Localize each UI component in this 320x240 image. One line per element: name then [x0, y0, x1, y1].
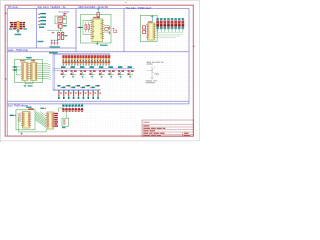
wires left of U1	[83, 21, 91, 35]
led row red caps	[62, 55, 110, 58]
hierarchical label row1 box2	[38, 13, 46, 15]
page background	[0, 0, 200, 142]
driver U2 body	[148, 23, 155, 40]
wire above U5	[59, 108, 63, 112]
net labels under box3	[100, 45, 108, 46]
opto unit 3	[164, 18, 167, 32]
net label above shift registers	[26, 57, 31, 59]
transistor Q7	[117, 70, 124, 78]
resistor R5 box4	[143, 30, 146, 33]
driver enclosure bottom	[16, 110, 35, 130]
U5 pin names left	[47, 113, 49, 128]
led row teal mid	[63, 60, 110, 61]
led row orange dots	[63, 63, 110, 64]
title block rows	[142, 124, 193, 136]
wires into slabs top	[17, 59, 34, 75]
pins between slabs	[28, 64, 31, 79]
horizontal bus mid	[53, 68, 135, 70]
section divider: box1/box2	[36, 8, 38, 48]
capacitor C3	[56, 40, 58, 46]
power flag box3	[97, 8, 100, 13]
diode D1 above relay	[63, 14, 67, 17]
shift register U5 body	[47, 112, 54, 129]
shift register U3a body	[22, 62, 28, 80]
net label under switches	[38, 41, 44, 42]
ground symbol J1	[16, 30, 19, 33]
note circuit text	[147, 62, 164, 65]
U5 right pin labels	[54, 113, 58, 127]
U4 right pins	[30, 113, 31, 126]
capacitor C2	[54, 40, 56, 46]
frame ticks	[5, 5, 194, 137]
hier label bottom left	[10, 115, 16, 117]
hier label left B	[12, 69, 16, 71]
svg-text:Microcontroller - Atmel AV: Microcontroller - Atmel AV	[79, 5, 109, 9]
U3b right pins	[37, 64, 38, 79]
switch S2	[61, 31, 63, 39]
driver U2 left pins	[146, 25, 147, 38]
resistor row red marks	[61, 85, 97, 88]
relay K1 body	[58, 17, 66, 22]
gnd label bottom	[62, 127, 65, 128]
svg-text:PC conn.: PC conn.	[8, 5, 19, 9]
shift register U3b body	[31, 62, 37, 80]
wire stubs under J1	[14, 28, 22, 31]
hierarchical label row5 box2	[39, 27, 44, 28]
section divider: bottom of box3 box4 / top of middle	[7, 51, 189, 53]
opto unit 6	[174, 18, 177, 32]
svg-text:Sun led flash: Sun led flash	[59, 11, 70, 13]
note circuit bottom text	[146, 80, 157, 83]
svg-text:Leds - TM30 strip: Leds - TM30 strip	[8, 48, 29, 52]
opto unit 7	[178, 18, 181, 32]
U4 pin names left	[23, 113, 25, 127]
resistor row labels	[57, 85, 99, 88]
opto unit 4	[167, 18, 170, 32]
mcu U1 left pins	[90, 21, 92, 39]
driver enclosure box4	[140, 15, 157, 41]
mcu U1 right pins	[103, 21, 105, 39]
vertical bus	[53, 54, 54, 91]
resistor R3 left	[88, 25, 90, 30]
U4 left pins	[21, 113, 22, 126]
connector J1 right pin labels	[20, 22, 25, 28]
connector J1 left pin labels	[10, 22, 17, 28]
U4 left outside labels	[18, 113, 21, 122]
net label near bus top	[49, 52, 58, 54]
U3b pin names	[31, 63, 33, 79]
hier stub left	[52, 32, 55, 33]
driver U2 ref text	[148, 21, 152, 22]
bus ribbon fill	[35, 112, 46, 128]
ground U3	[24, 85, 27, 88]
power flag box4	[151, 15, 154, 22]
U3a left pins	[21, 64, 22, 79]
hierarchical label row3 box2	[38, 20, 46, 22]
svg-text:Sun conn. / Switchs - Sc: Sun conn. / Switchs - Sc	[38, 5, 67, 9]
mcu U1 pin name smudge right	[101, 20, 103, 39]
resistor pack teal row	[62, 105, 83, 107]
opto unit 1	[156, 18, 159, 32]
transistor row labels	[61, 66, 132, 68]
shift register enclosure middle	[15, 59, 43, 82]
transistor Q4	[89, 70, 96, 78]
opto unit 2	[160, 18, 163, 32]
red ref text above slabs	[20, 60, 24, 61]
wires opto row to U2	[157, 32, 183, 37]
title block outline	[142, 120, 193, 136]
net label sr	[28, 85, 33, 86]
ground U1	[96, 42, 99, 46]
bus ribbon diagonals	[35, 112, 46, 128]
resistor pack red row	[62, 108, 83, 110]
section divider: box2/box3	[75, 8, 77, 51]
U4 pin names right	[28, 113, 30, 127]
transistor Q3	[79, 70, 86, 78]
U5 left pins	[46, 114, 47, 127]
hier label left A	[12, 66, 16, 68]
hier label left box3	[77, 27, 82, 29]
svg-text:Top side - TM30 interf: Top side - TM30 interf	[126, 6, 151, 10]
opto unit 8	[182, 18, 185, 32]
connector enclosure bottom	[62, 118, 69, 126]
hierarchical label row4 box2	[38, 24, 46, 26]
resistor R4 box4	[143, 26, 146, 29]
mcu U1 body	[92, 19, 103, 42]
section divider: top of bottom band	[7, 103, 189, 105]
svg-text:Sun key Patch fix: Sun key Patch fix	[48, 29, 62, 32]
red marks under J1	[13, 28, 16, 30]
resistor pack red text row	[62, 111, 83, 112]
crystal Y1	[104, 26, 109, 33]
ground bottom	[20, 133, 23, 135]
capacitor C4	[109, 26, 111, 30]
switch S1	[58, 31, 60, 39]
net label above ribbon	[41, 108, 44, 109]
component above U4	[28, 108, 33, 110]
resistor row bodies	[58, 90, 101, 99]
connector pins bottom	[63, 119, 65, 125]
mcu U1 ref text	[93, 17, 100, 18]
section divider: right edge	[188, 8, 190, 104]
wire below slabs	[25, 81, 33, 84]
horizontal bus low	[53, 89, 101, 90]
section divider: top edge	[7, 7, 189, 9]
bus entries U3	[48, 64, 51, 80]
net label under caps	[50, 46, 61, 47]
led row orange	[63, 58, 111, 60]
resistor below relay	[57, 24, 66, 31]
section divider: bottom of middle band	[7, 100, 189, 102]
node labels TX RX	[9, 28, 27, 29]
wire resistor pack down	[66, 111, 68, 118]
U5 right pins	[53, 114, 56, 127]
frame column number	[125, 2, 127, 3]
transistor Q2	[70, 70, 77, 78]
mcu enclosure box3	[81, 15, 112, 44]
transistor Q5	[98, 70, 105, 78]
net label above U4	[26, 107, 32, 108]
U5 pin names right	[52, 113, 54, 128]
capacitor C5	[109, 31, 111, 35]
transistor Q8	[127, 70, 134, 78]
relay K1 enclosure	[55, 16, 66, 24]
section divider: box3/box4	[123, 8, 125, 51]
title block texts	[143, 122, 190, 136]
transistor Q1	[60, 70, 67, 78]
horizontal bus top	[53, 54, 110, 55]
led row red lower	[62, 61, 110, 63]
wires bottom left	[18, 118, 46, 132]
sheet frame	[5, 5, 193, 136]
led row	[62, 55, 110, 65]
led row teal feet	[63, 65, 110, 66]
opto unit 5	[171, 18, 174, 32]
connector J1 body	[17, 21, 19, 29]
resistor R1 top	[97, 13, 100, 20]
transistor Q6	[108, 70, 115, 78]
grid dots	[2, 2, 198, 140]
section divider: bottom of box1 box2	[7, 47, 76, 49]
shift register U4 body	[22, 112, 30, 129]
svg-text:Col / TM30 driver: Col / TM30 driver	[8, 104, 28, 108]
section divider: left edge	[6, 8, 8, 135]
mcu U1 inner teal marks	[93, 21, 103, 37]
note circuit transistor	[147, 66, 159, 79]
page edge shadow	[0, 0, 200, 142]
mcu U1 pin name smudge left	[92, 20, 94, 39]
hier label right box3	[113, 28, 117, 33]
ground label J1	[15, 34, 22, 36]
wires U3 right to bus	[38, 64, 48, 79]
capacitor C1	[51, 40, 53, 46]
hierarchical label row2 box2	[38, 17, 46, 19]
driver U2 right pins	[155, 25, 156, 38]
frame row letters	[5, 13, 195, 80]
driver U2 pin names	[148, 24, 150, 39]
U3a pin names	[22, 63, 24, 79]
teal label right of switches	[64, 35, 67, 36]
resistor R2 left	[85, 25, 87, 30]
